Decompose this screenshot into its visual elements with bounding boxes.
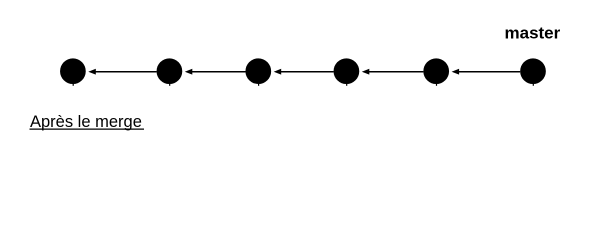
caption underline bbox=[30, 128, 145, 130]
aliasing tick under commit node at x=258.3 bbox=[258, 84, 259, 86]
commit node 6 (master) bbox=[520, 58, 546, 84]
svg-text:master: master bbox=[505, 24, 561, 43]
svg-text:Après le merge: Après le merge bbox=[30, 113, 142, 131]
wire arrow from commit 4 to commit 3 bbox=[274, 69, 334, 75]
aliasing tick under commit node at x=72.9 bbox=[73, 84, 74, 86]
wire arrow from commit 6 to commit 5 bbox=[452, 69, 521, 75]
commit node 4 bbox=[334, 58, 360, 84]
commit node 2 bbox=[157, 58, 183, 84]
commit node 1 bbox=[60, 58, 86, 84]
wire arrow from commit 2 to commit 1 bbox=[88, 69, 156, 75]
commit node 3 bbox=[245, 58, 271, 84]
wire arrow from commit 3 to commit 2 bbox=[185, 69, 246, 75]
aliasing tick under commit node at x=436.2 bbox=[436, 84, 437, 86]
aliasing tick under commit node at x=346.4 bbox=[346, 84, 347, 86]
wire arrow from commit 5 to commit 4 bbox=[362, 69, 424, 75]
commit node 5 bbox=[423, 58, 449, 84]
aliasing tick under commit node at x=533 bbox=[533, 84, 534, 86]
aliasing tick under commit node at x=169.4 bbox=[169, 84, 170, 86]
